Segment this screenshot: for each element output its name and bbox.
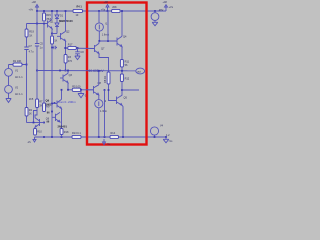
resistor R3 — [64, 55, 67, 64]
diode D1 — [55, 15, 59, 19]
wire feedback stub — [122, 89, 139, 91]
transistor Q10 driver — [52, 112, 60, 122]
bus node dots — [43, 136, 45, 138]
resistor R10 — [34, 129, 37, 136]
wire Q4 collector — [121, 11, 123, 36]
svg-text:1K5: 1K5 — [29, 98, 34, 101]
svg-text:1K: 1K — [54, 40, 57, 43]
capacitor C8 — [75, 48, 80, 56]
wire Q1 collector — [51, 11, 53, 19]
resistor R7 — [36, 99, 39, 108]
resistor R16 — [51, 36, 54, 44]
transistor Q3 — [63, 73, 68, 82]
node x99 — [98, 10, 100, 12]
source V3 top right — [154, 10, 156, 12]
ground C8 — [75, 56, 80, 60]
transistor Q6 — [35, 118, 44, 127]
resistor R8 — [107, 72, 110, 84]
transistor Q5 — [117, 95, 123, 105]
svg-text:+Vs: +Vs — [29, 9, 34, 12]
wire H4 mid horizontal — [37, 70, 136, 72]
resistor R15 — [43, 13, 46, 21]
wire x37 lower — [36, 71, 38, 100]
wire input horizontal — [9, 64, 27, 66]
resistor R11 — [120, 60, 123, 68]
wire Q3 emitter / H5 — [68, 83, 94, 90]
transistor Q4 — [117, 36, 122, 46]
node feedback tap — [121, 89, 123, 91]
svg-text:R15: R15 — [46, 14, 51, 17]
resistor R14 bottom right — [110, 135, 119, 138]
resistor R1 — [13, 63, 22, 66]
source V1 — [5, 68, 13, 76]
wire Q1 emitter long — [51, 29, 53, 137]
ground bottom right — [163, 137, 169, 143]
svg-text:48V: 48V — [159, 9, 164, 12]
wire Q2 emitter — [65, 41, 67, 71]
flag -Vs bottom-left — [33, 137, 36, 142]
rail resistor R4 — [73, 9, 83, 12]
svg-text:out: out — [137, 70, 141, 73]
capacitor C5 — [35, 44, 39, 46]
wire R5 ground stub — [80, 90, 82, 94]
svg-text:R19: R19 — [29, 31, 34, 34]
svg-text:R5 100: R5 100 — [72, 85, 81, 88]
resistor R2 on left vertical — [25, 108, 28, 117]
wire Q3 base stub — [60, 77, 63, 79]
svg-text:R13 0.1: R13 0.1 — [72, 132, 81, 135]
transistor Q9 — [52, 99, 62, 108]
wire diode tie — [52, 33, 57, 35]
svg-text:R8 1K: R8 1K — [103, 76, 107, 83]
resistor R13 bottom — [72, 135, 81, 138]
wire Q7 emitter jog — [99, 54, 109, 72]
capacitor C7 — [24, 47, 28, 49]
resistor R18 emitter — [60, 129, 63, 135]
resistor R5 — [72, 88, 81, 91]
svg-text:1K: 1K — [29, 34, 32, 37]
svg-text:R4 1: R4 1 — [77, 6, 83, 9]
svg-text:R10: R10 — [37, 131, 42, 134]
output port oval "out" — [136, 68, 145, 74]
ground R5 tap — [78, 94, 84, 98]
svg-text:60.608mV: 60.608mV — [89, 69, 105, 73]
resistor R9 — [43, 103, 46, 112]
wire base bottom-left — [27, 122, 40, 124]
diode chain node — [56, 10, 58, 12]
svg-text:5401: 5401 — [46, 103, 52, 107]
diode D2 — [55, 23, 59, 27]
svg-text:+Vs: +Vs — [101, 9, 106, 12]
current source I2 — [98, 95, 100, 100]
wire top rail — [37, 10, 166, 12]
node H4 — [65, 70, 67, 72]
svg-text:Q3: Q3 — [69, 74, 73, 77]
wire Q4 emitter — [121, 47, 123, 60]
svg-text:20K: 20K — [112, 6, 117, 9]
wire left input vertical — [26, 24, 28, 123]
svg-text:Q9: Q9 — [46, 99, 50, 103]
power flag +Vs top-left — [36, 5, 39, 12]
node input — [26, 64, 28, 66]
flag -Vs below bus — [103, 139, 106, 145]
svg-text:1.2: 1.2 — [166, 134, 170, 137]
ground V3 — [152, 21, 158, 26]
wire Q9 collector — [61, 90, 63, 100]
ground input — [6, 99, 11, 103]
wire x108 — [107, 11, 109, 41]
resistor R17 — [68, 46, 77, 49]
wire x104.5 down to bus — [104, 90, 106, 137]
svg-text:+48: +48 — [163, 1, 168, 4]
svg-text:R1 10K: R1 10K — [13, 60, 22, 63]
current source I1 — [98, 11, 100, 23]
transistor Q2 — [57, 31, 66, 41]
transistor Q1 — [48, 19, 53, 28]
wire Q2 collector — [65, 11, 67, 31]
svg-text:AC 1.1: AC 1.1 — [15, 76, 23, 79]
svg-text:4.7u: 4.7u — [29, 50, 34, 53]
svg-text:AC 1.1: AC 1.1 — [15, 93, 23, 96]
red highlight rectangle — [87, 3, 147, 145]
node dot rail x37 — [36, 10, 38, 12]
svg-text:1.36m: 1.36m — [100, 110, 107, 113]
wire x37 vertical — [36, 11, 38, 71]
wire Q1 base horizontal — [27, 23, 48, 25]
wire bottom rail — [35, 136, 167, 138]
svg-text:R17: R17 — [68, 44, 73, 47]
wire rail corner right — [165, 7, 167, 11]
source V4 bottom right — [150, 127, 158, 135]
resistor R12 — [120, 74, 123, 82]
wire Q8 collector — [98, 71, 100, 85]
svg-text:R14: R14 — [111, 132, 116, 135]
svg-text:R18: R18 — [64, 131, 69, 134]
svg-text:+48: +48 — [32, 1, 37, 4]
svg-text:+Vs: +Vs — [169, 6, 174, 9]
capacitor C6 — [52, 46, 57, 50]
wire Q5 emitter — [122, 105, 123, 137]
wire Q9 emitter — [61, 109, 63, 129]
wire H41 — [99, 40, 117, 42]
transistor Q8 mirror — [87, 85, 99, 95]
svg-text:+48: +48 — [104, 1, 109, 4]
wire vas base feed — [64, 47, 95, 50]
resistor R19 upper-left — [25, 29, 28, 37]
svg-text:MBR20100: MBR20100 — [59, 19, 73, 23]
rail resistor R6 — [112, 9, 121, 12]
flag +Vs inside box — [106, 5, 109, 12]
source V2 — [5, 85, 13, 93]
svg-text:R12: R12 — [125, 78, 130, 81]
node R5 right — [80, 89, 82, 91]
svg-text:470: 470 — [68, 60, 73, 63]
transistor Q7 vas — [90, 43, 99, 53]
svg-text:1K: 1K — [29, 113, 32, 116]
flag +Vs right — [165, 5, 168, 7]
svg-text:2N5401: 2N5401 — [58, 125, 68, 129]
